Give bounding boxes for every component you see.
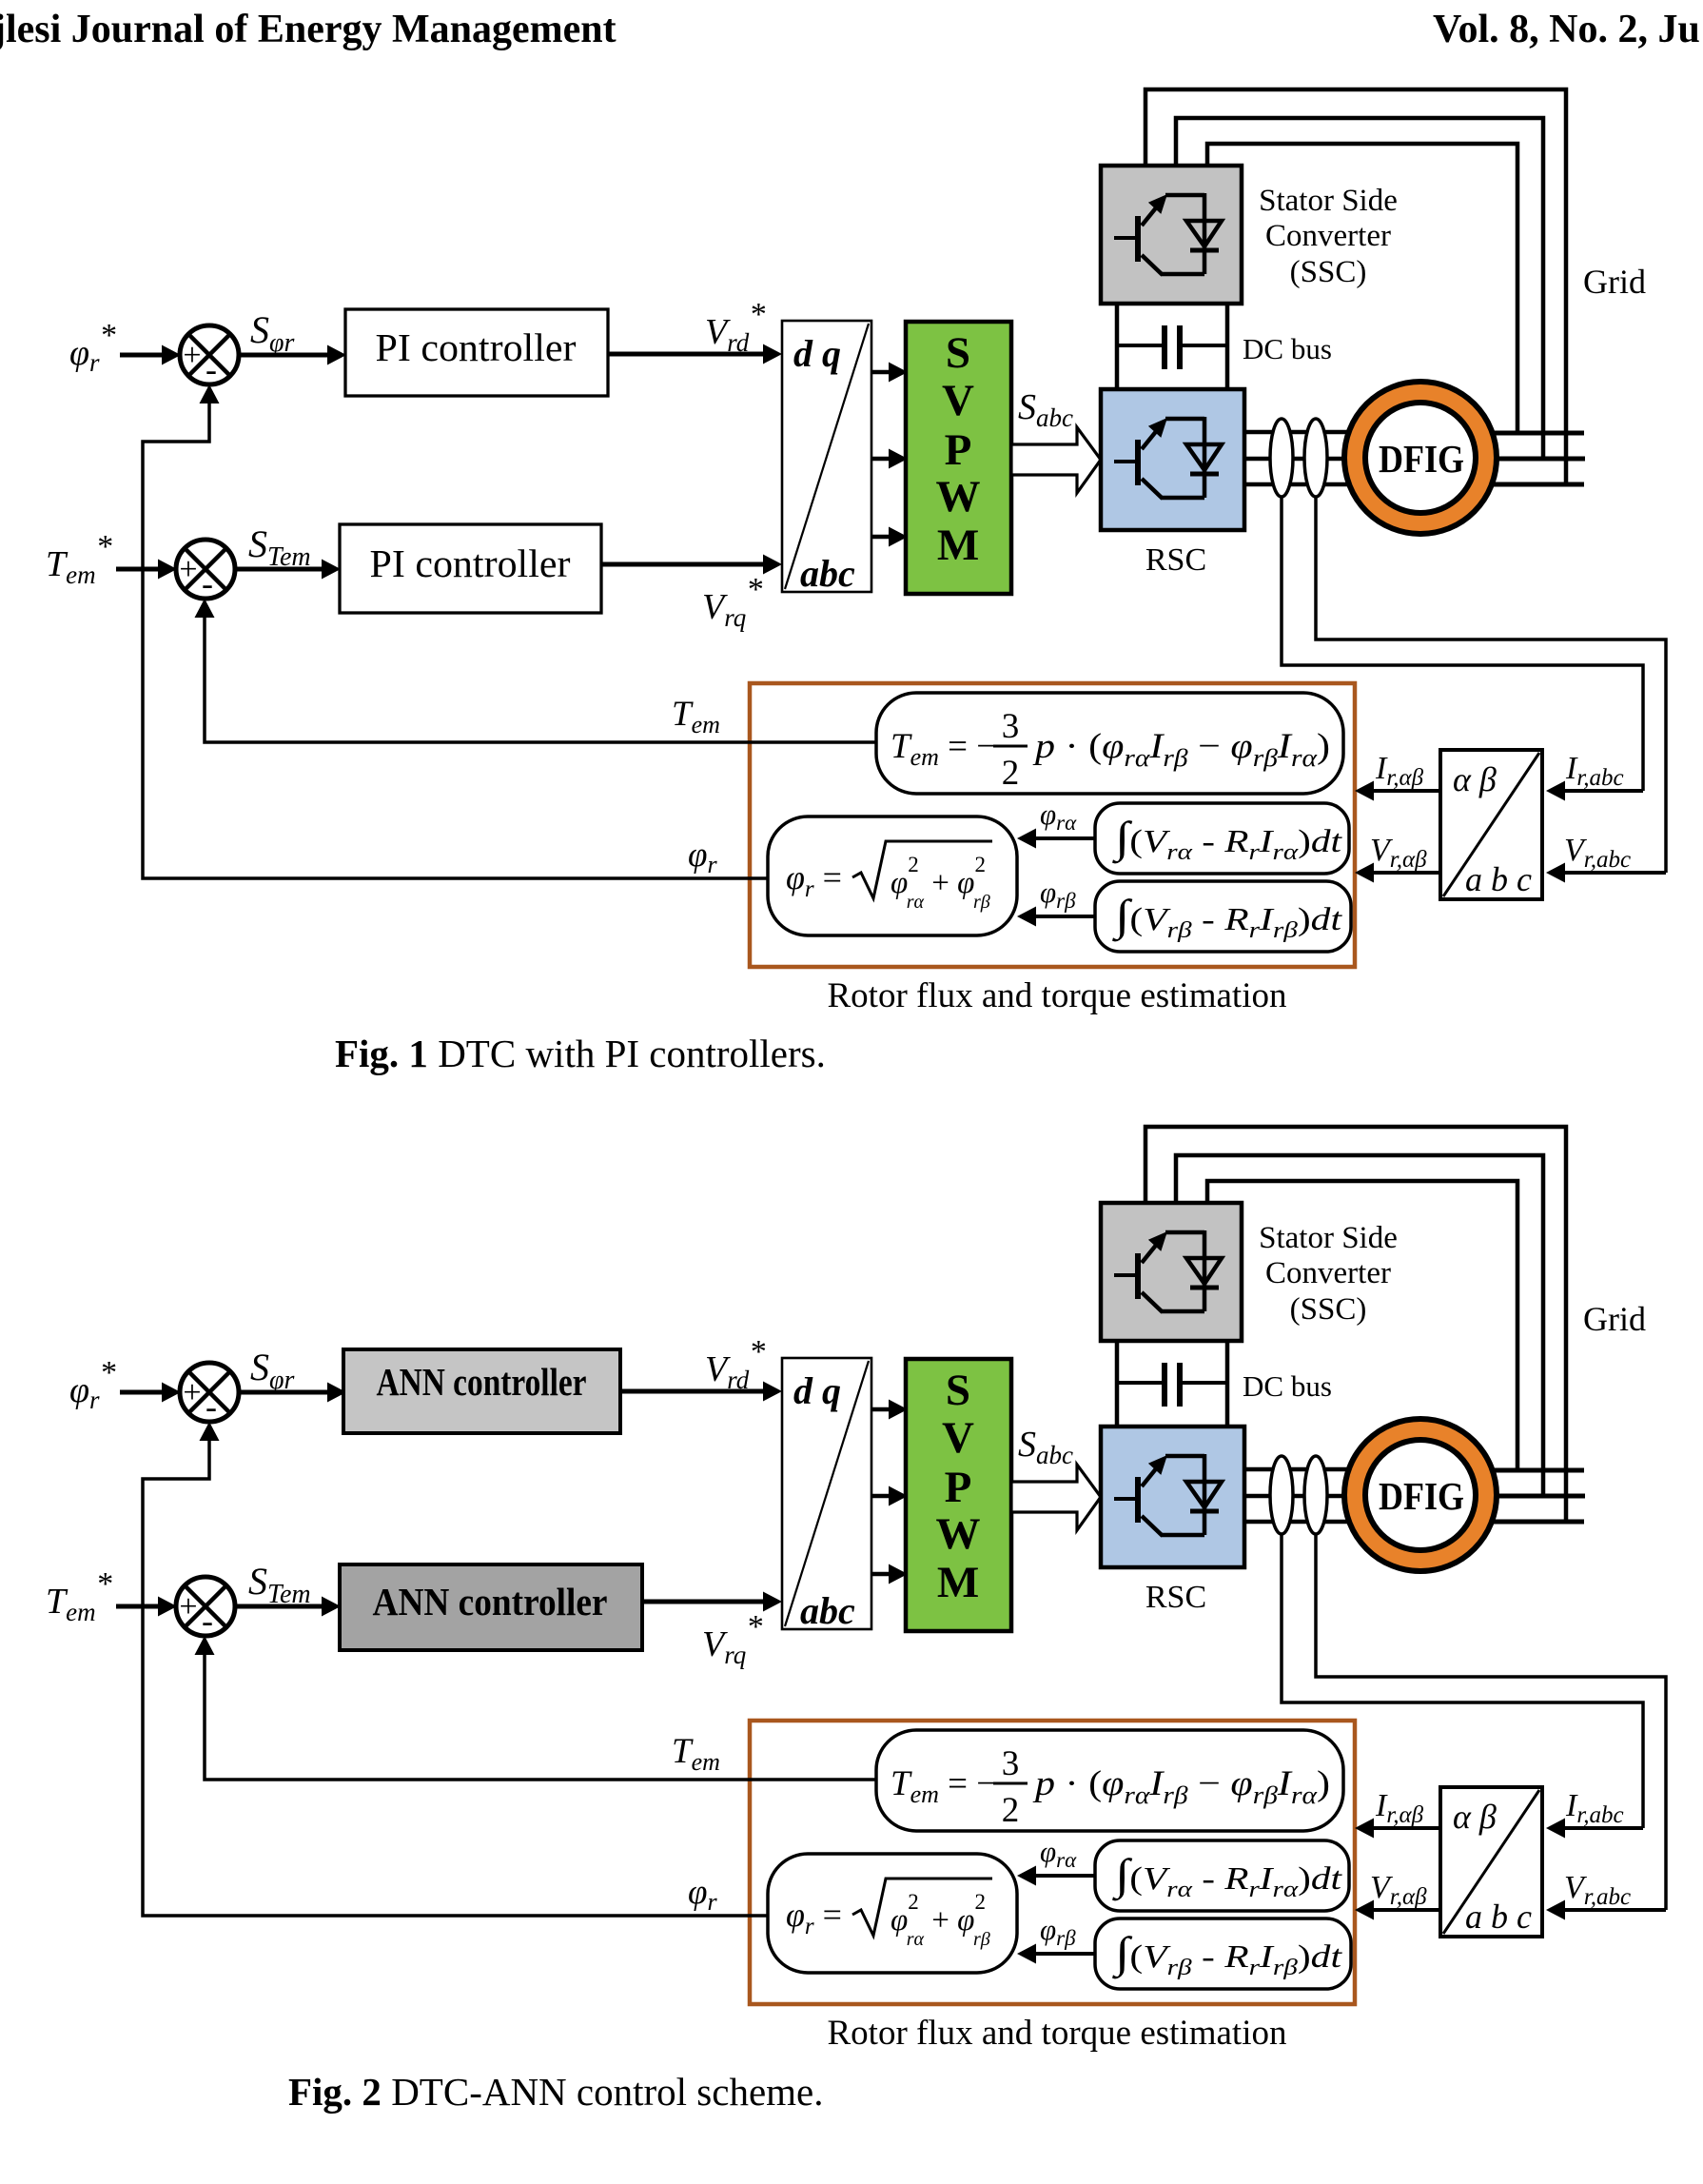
label V_r_alphabeta bbox=[1370, 833, 1427, 873]
svg-text:-: - bbox=[202, 1602, 213, 1640]
svg-text:3: 3 bbox=[1002, 1744, 1020, 1783]
wire SSC to grid loop outer bbox=[1145, 89, 1566, 483]
svg-text:abc: abc bbox=[800, 1589, 855, 1632]
SVPWM letter S (fig2) bbox=[946, 1366, 970, 1415]
dq-abc transform box (fig2) bbox=[782, 1358, 871, 1629]
label V_rq* bbox=[702, 572, 762, 632]
svg-text:-: - bbox=[206, 1387, 217, 1426]
svg-text:Rotor flux and torque estimati: Rotor flux and torque estimation bbox=[828, 976, 1287, 1015]
label d q bbox=[793, 332, 841, 375]
wire I_r_abc arrow (fig2) bbox=[1546, 1819, 1643, 1839]
svg-text:PI controller: PI controller bbox=[370, 541, 571, 585]
svg-text:α β: α β bbox=[1453, 760, 1497, 798]
SVPWM letter P (fig2) bbox=[945, 1463, 972, 1512]
wire dq to SVPWM 3 bbox=[871, 527, 908, 547]
wire S2 to controller 2 (fig2) bbox=[235, 1597, 341, 1617]
stator side converter SSC box (fig2) bbox=[1101, 1203, 1242, 1341]
block arrow SVPWM to RSC bbox=[1011, 427, 1101, 493]
SVPWM letter V bbox=[942, 376, 974, 425]
label Stator Side Converter (SSC) bbox=[1259, 184, 1398, 289]
wire controller1 to dq (fig2) bbox=[620, 1382, 782, 1402]
svg-text:d q: d q bbox=[793, 1369, 841, 1412]
svg-text:S: S bbox=[946, 1366, 970, 1415]
wire stator phase b (fig2) bbox=[1496, 1494, 1585, 1499]
label T_em bbox=[672, 695, 720, 738]
wire dq to SVPWM 2 bbox=[871, 449, 908, 469]
wire V_r_abc arrow (fig2) bbox=[1546, 1900, 1666, 1920]
label S_Tem bbox=[248, 522, 311, 572]
label abc bbox=[800, 552, 855, 595]
svg-text:ANN controller: ANN controller bbox=[373, 1580, 608, 1623]
svg-text:+: + bbox=[183, 1375, 201, 1410]
svg-text:a b c: a b c bbox=[1465, 860, 1532, 898]
wire rotor I measurement (fig2) bbox=[1282, 1532, 1643, 1828]
label T_em (fig2) bbox=[672, 1732, 720, 1776]
svg-text:2: 2 bbox=[1002, 754, 1020, 793]
flux magnitude equation box (fig2) bbox=[768, 1854, 1017, 1973]
integrator beta box (fig2) bbox=[1095, 1918, 1351, 1989]
svg-text:DFIG: DFIG bbox=[1379, 437, 1464, 481]
SVPWM box (fig2) bbox=[906, 1359, 1011, 1631]
svg-text:Vol. 8, No. 2, Ju: Vol. 8, No. 2, Ju bbox=[1433, 8, 1700, 51]
wire SSC to grid loop inner bbox=[1207, 144, 1517, 433]
input label phi_r* (fig2) bbox=[69, 1355, 116, 1414]
svg-text:PI controller: PI controller bbox=[376, 325, 577, 369]
wire S1 to controller 1 bbox=[239, 345, 346, 365]
svg-text:DC bus: DC bus bbox=[1243, 332, 1332, 365]
rotor flux and torque estimation box bbox=[750, 683, 1355, 967]
torque equation (fig2) bbox=[891, 1744, 1330, 1830]
input label T_em* bbox=[46, 529, 112, 589]
flux magnitude equation bbox=[786, 841, 992, 913]
svg-text:abc: abc bbox=[800, 552, 855, 595]
svg-text:Converter: Converter bbox=[1265, 219, 1391, 253]
integrator alpha box bbox=[1095, 803, 1349, 874]
svg-text:Stator Side: Stator Side bbox=[1259, 184, 1398, 218]
svg-text:(SSC): (SSC) bbox=[1290, 255, 1367, 289]
svg-text:d q: d q bbox=[793, 332, 841, 375]
svg-text:P: P bbox=[945, 425, 972, 475]
wire rotor phase a (fig2) bbox=[1244, 1467, 1375, 1472]
svg-text:Converter: Converter bbox=[1265, 1256, 1391, 1290]
block arrow SVPWM to RSC (fig2) bbox=[1011, 1465, 1101, 1530]
label alpha beta bbox=[1453, 760, 1497, 798]
wire rotor phase b (fig2) bbox=[1244, 1494, 1375, 1499]
label V_r_abc (fig2) bbox=[1564, 1870, 1631, 1910]
label DFIG (fig2) bbox=[1379, 1474, 1464, 1518]
label d q (fig2) bbox=[793, 1369, 841, 1412]
svg-text:+: + bbox=[179, 552, 197, 587]
wire rotor phase b bbox=[1244, 457, 1375, 462]
label phi_r_alpha (fig2) bbox=[1040, 1835, 1077, 1872]
rotor flux and torque estimation box (fig2) bbox=[750, 1721, 1355, 2004]
label I_r_alphabeta bbox=[1375, 751, 1424, 791]
integrator alpha equation (fig2) bbox=[1111, 1850, 1343, 1902]
wire rotor I measurement bbox=[1282, 495, 1643, 791]
wire T_em feedback bbox=[195, 599, 877, 742]
wire integrator beta to flux eq (fig2) bbox=[1017, 1944, 1095, 1964]
label phi_r_beta bbox=[1040, 876, 1076, 913]
wire dq to SVPWM 1 bbox=[871, 363, 908, 383]
summing junction S1 bbox=[180, 325, 239, 388]
dq-abc transform box bbox=[782, 321, 871, 592]
label RSC bbox=[1145, 542, 1206, 578]
SVPWM letter V (fig2) bbox=[942, 1413, 974, 1463]
wire S2 to controller 2 bbox=[235, 560, 341, 580]
label S_Tem (fig2) bbox=[248, 1560, 311, 1609]
slip ring 1 bbox=[1270, 419, 1293, 497]
label I_r_abc (fig2) bbox=[1565, 1788, 1624, 1828]
wire stator phase c (fig2) bbox=[1494, 1520, 1584, 1525]
wire I_r_abc arrow bbox=[1546, 781, 1643, 801]
alphabeta-abc transform box (fig2) bbox=[1440, 1787, 1542, 1937]
label phi_r bbox=[688, 836, 717, 878]
wire dq to SVPWM 1 (fig2) bbox=[871, 1400, 908, 1420]
label S_phi_r bbox=[250, 308, 294, 358]
wire DC bus right (fig2) bbox=[1225, 1341, 1230, 1426]
svg-text:-: - bbox=[202, 564, 213, 602]
integrator alpha equation bbox=[1111, 813, 1343, 865]
svg-text:Fig. 2 DTC-ANN control scheme.: Fig. 2 DTC-ANN control scheme. bbox=[288, 2070, 824, 2114]
wire stator phase c bbox=[1494, 482, 1584, 487]
PI controller 1 box bbox=[345, 309, 608, 396]
IGBT symbol in RSC (fig2) bbox=[1114, 1454, 1222, 1536]
label Grid bbox=[1583, 263, 1646, 301]
label RSC (fig2) bbox=[1145, 1580, 1206, 1615]
wire controller2 to dq bbox=[601, 555, 782, 575]
label I_r_alphabeta (fig2) bbox=[1375, 1788, 1424, 1828]
svg-text:φr =: φr = bbox=[786, 858, 842, 902]
svg-text:+: + bbox=[183, 338, 201, 373]
wire V_r_abc arrow bbox=[1546, 863, 1666, 883]
IGBT symbol in SSC (fig2) bbox=[1114, 1230, 1222, 1312]
label V_rd* bbox=[705, 297, 765, 357]
svg-text:Fig. 1 DTC with PI controllers: Fig. 1 DTC with PI controllers. bbox=[335, 1032, 826, 1075]
svg-text:DC bus: DC bus bbox=[1243, 1369, 1332, 1403]
svg-text:ANN controller: ANN controller bbox=[377, 1360, 587, 1404]
label phi_r_alpha bbox=[1040, 797, 1077, 835]
wire stator phase a bbox=[1494, 431, 1584, 436]
label DFIG bbox=[1379, 437, 1464, 481]
label phi_r_beta (fig2) bbox=[1040, 1913, 1076, 1950]
label phi_r (fig2) bbox=[688, 1873, 717, 1916]
svg-text:(SSC): (SSC) bbox=[1290, 1292, 1367, 1327]
capacitor DC bus bbox=[1117, 325, 1227, 369]
wire V_r_alphabeta (fig2) bbox=[1355, 1900, 1440, 1920]
integrator beta equation bbox=[1111, 891, 1343, 943]
label V_rq* (fig2) bbox=[702, 1609, 762, 1669]
label S_abc (fig2) bbox=[1018, 1425, 1073, 1469]
wire input phi_r* bbox=[120, 345, 181, 365]
SVPWM box bbox=[906, 322, 1011, 594]
svg-text:Rotor flux and torque estimati: Rotor flux and torque estimation bbox=[828, 2014, 1287, 2053]
IGBT symbol in RSC bbox=[1114, 417, 1222, 499]
SVPWM letter W (fig2) bbox=[936, 1509, 981, 1559]
wire rotor phase c bbox=[1244, 482, 1375, 487]
wire V_r_alphabeta bbox=[1355, 863, 1440, 883]
IGBT symbol in SSC bbox=[1114, 193, 1222, 275]
wire I_r_alphabeta bbox=[1355, 781, 1440, 801]
svg-text:3: 3 bbox=[1002, 707, 1020, 746]
DFIG machine (fig2) bbox=[1344, 1419, 1497, 1571]
torque equation box (fig2) bbox=[876, 1730, 1343, 1831]
capacitor DC bus (fig2) bbox=[1117, 1363, 1227, 1407]
ANN controller 1 label (fig2) bbox=[377, 1360, 587, 1404]
DFIG machine bbox=[1344, 382, 1497, 534]
slip ring 2 (fig2) bbox=[1304, 1456, 1327, 1534]
integrator beta box bbox=[1095, 881, 1351, 952]
wire dq to SVPWM 3 (fig2) bbox=[871, 1564, 908, 1584]
flux magnitude equation box bbox=[768, 817, 1017, 935]
wire rotor V measurement bbox=[1316, 495, 1666, 873]
svg-text:Grid: Grid bbox=[1583, 1300, 1646, 1338]
wire rotor phase c (fig2) bbox=[1244, 1520, 1375, 1525]
rotor side converter RSC box (fig2) bbox=[1101, 1426, 1244, 1567]
wire input T_em* (fig2) bbox=[116, 1597, 177, 1617]
PI controller 2 label bbox=[370, 541, 571, 585]
SVPWM letter M bbox=[937, 521, 979, 570]
label DC bus (fig2) bbox=[1243, 1369, 1332, 1403]
svg-text:a b c: a b c bbox=[1465, 1898, 1532, 1936]
wire S1 to controller 1 (fig2) bbox=[239, 1383, 346, 1403]
svg-text:V: V bbox=[942, 376, 974, 425]
wire dq to SVPWM 2 (fig2) bbox=[871, 1486, 908, 1506]
PI controller 2 box bbox=[340, 524, 601, 613]
wire rotor V measurement (fig2) bbox=[1316, 1532, 1666, 1910]
label rotor flux and torque estimation (fig2) bbox=[828, 2014, 1287, 2053]
wire integrator beta to flux eq bbox=[1017, 907, 1095, 927]
torque equation bbox=[891, 707, 1330, 793]
slip ring 2 bbox=[1304, 419, 1327, 497]
summing junction S1 (fig2) bbox=[180, 1363, 239, 1426]
wire controller1 to dq bbox=[608, 344, 782, 364]
svg-text:RSC: RSC bbox=[1145, 542, 1206, 578]
wire DC bus right bbox=[1225, 304, 1230, 389]
integrator beta equation (fig2) bbox=[1111, 1928, 1343, 1980]
svg-text:φr =: φr = bbox=[786, 1896, 842, 1939]
wire rotor phase a bbox=[1244, 430, 1375, 435]
slip ring 1 (fig2) bbox=[1270, 1456, 1293, 1534]
svg-text:-: - bbox=[206, 350, 217, 388]
label abc (fig2) bbox=[800, 1589, 855, 1632]
wire SSC to grid loop middle bbox=[1176, 118, 1543, 460]
PI controller 1 label bbox=[376, 325, 577, 369]
svg-text:Tem = −: Tem = − bbox=[891, 727, 996, 771]
svg-text:M: M bbox=[937, 521, 979, 570]
svg-text:Grid: Grid bbox=[1583, 263, 1646, 301]
label a b c (fig2) bbox=[1465, 1898, 1532, 1936]
svg-text:2: 2 bbox=[1002, 1791, 1020, 1830]
svg-text:Tem = −: Tem = − bbox=[891, 1764, 996, 1808]
input label phi_r* bbox=[69, 318, 116, 377]
svg-text:W: W bbox=[936, 1509, 981, 1559]
wire input T_em* bbox=[116, 560, 177, 580]
label S_phi_r (fig2) bbox=[250, 1346, 294, 1395]
wire T_em feedback (fig2) bbox=[195, 1636, 877, 1780]
wire phi_r feedback (fig2) bbox=[143, 1422, 768, 1916]
integrator alpha box (fig2) bbox=[1095, 1840, 1349, 1911]
label V_r_abc bbox=[1564, 833, 1631, 873]
SVPWM letter P bbox=[945, 425, 972, 475]
wire DC bus left bbox=[1115, 304, 1120, 389]
wire SSC to grid loop inner (fig2) bbox=[1207, 1181, 1517, 1470]
wire integrator alpha to flux eq (fig2) bbox=[1017, 1866, 1095, 1886]
rotor side converter RSC box bbox=[1101, 389, 1244, 530]
ANN controller 1 box (fig2) bbox=[343, 1349, 620, 1433]
svg-text:V: V bbox=[942, 1413, 974, 1463]
label Stator Side Converter (SSC) (fig2) bbox=[1259, 1221, 1398, 1327]
label S_abc bbox=[1018, 387, 1073, 432]
label rotor flux and torque estimation bbox=[828, 976, 1287, 1015]
alphabeta-abc transform box bbox=[1440, 750, 1542, 899]
label Grid (fig2) bbox=[1583, 1300, 1646, 1338]
stator side converter SSC box bbox=[1101, 166, 1242, 304]
svg-text:S: S bbox=[946, 328, 970, 378]
wire stator phase a (fig2) bbox=[1494, 1468, 1584, 1473]
wire DC bus left (fig2) bbox=[1115, 1341, 1120, 1426]
ANN controller 2 box (fig2) bbox=[340, 1564, 642, 1650]
wire phi_r feedback bbox=[143, 384, 768, 878]
SVPWM letter S bbox=[946, 328, 970, 378]
wire SSC to grid loop middle (fig2) bbox=[1176, 1155, 1543, 1497]
svg-text:Stator Side: Stator Side bbox=[1259, 1221, 1398, 1255]
input label T_em* (fig2) bbox=[46, 1566, 112, 1626]
svg-text:DFIG: DFIG bbox=[1379, 1474, 1464, 1518]
svg-text:W: W bbox=[936, 472, 981, 521]
SVPWM letter W bbox=[936, 472, 981, 521]
wire I_r_alphabeta (fig2) bbox=[1355, 1819, 1440, 1839]
label alpha beta (fig2) bbox=[1453, 1798, 1497, 1836]
svg-text:+: + bbox=[179, 1589, 197, 1624]
label DC bus bbox=[1243, 332, 1332, 365]
label a b c bbox=[1465, 860, 1532, 898]
wire SSC to grid loop outer (fig2) bbox=[1145, 1127, 1566, 1521]
svg-text:RSC: RSC bbox=[1145, 1580, 1206, 1615]
label V_rd* (fig2) bbox=[705, 1334, 765, 1394]
wire stator phase b bbox=[1496, 457, 1585, 462]
wire integrator alpha to flux eq bbox=[1017, 829, 1095, 849]
torque equation box bbox=[876, 693, 1343, 794]
wire controller2 to dq (fig2) bbox=[642, 1592, 782, 1612]
SVPWM letter M (fig2) bbox=[937, 1558, 979, 1607]
wire input phi_r* (fig2) bbox=[120, 1383, 181, 1403]
summing junction S2 bbox=[176, 540, 235, 602]
svg-text:jlesi Journal of Energy Manage: jlesi Journal of Energy Management bbox=[0, 8, 617, 51]
ANN controller 2 label (fig2) bbox=[373, 1580, 608, 1623]
flux magnitude equation (fig2) bbox=[786, 1879, 992, 1950]
label I_r_abc bbox=[1565, 751, 1624, 791]
svg-text:M: M bbox=[937, 1558, 979, 1607]
svg-text:α β: α β bbox=[1453, 1798, 1497, 1836]
label V_r_alphabeta (fig2) bbox=[1370, 1870, 1427, 1910]
summing junction S2 (fig2) bbox=[176, 1577, 235, 1640]
svg-text:P: P bbox=[945, 1463, 972, 1512]
